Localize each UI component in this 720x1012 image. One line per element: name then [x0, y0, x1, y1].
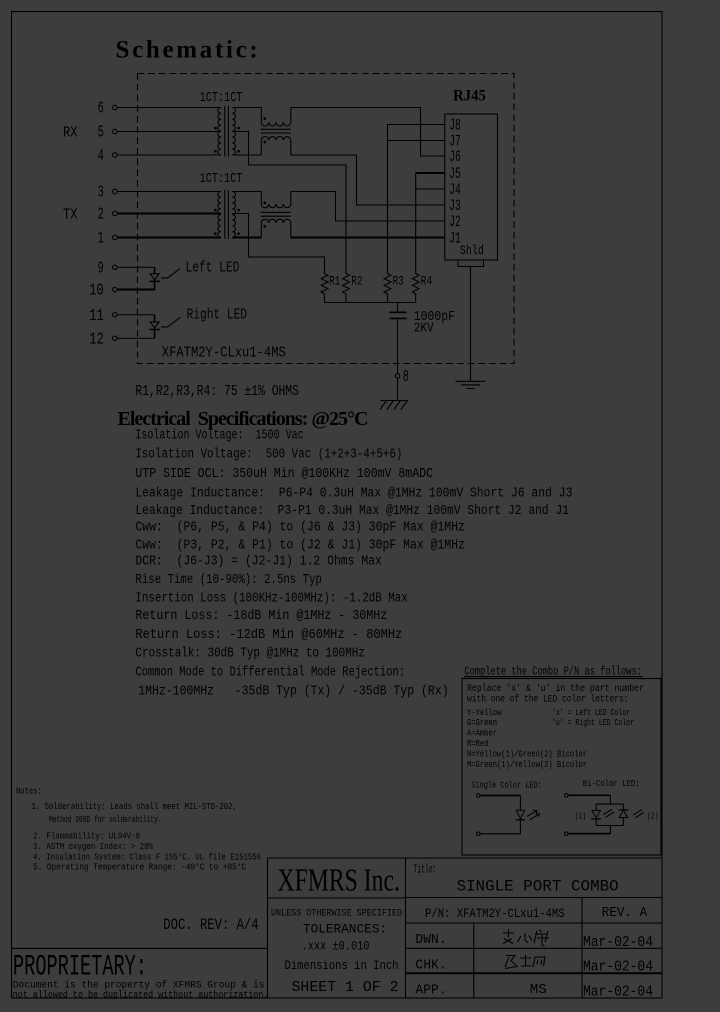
svg-text:R1,R2,R3,R4: 75 ±1% OHMS: R1,R2,R3,R4: 75 ±1% OHMS — [135, 384, 299, 400]
drawn signature — [503, 930, 549, 947]
choke L2 phase dots — [264, 202, 266, 228]
svg-text:Replace 'x' & 'u' in the part: Replace 'x' & 'u' in the part number — [467, 683, 644, 695]
svg-text:XFMRS Inc.: XFMRS Inc. — [278, 864, 400, 899]
svg-text:APP.: APP. — [415, 983, 446, 998]
wire T1 secondary top to choke L1 — [232, 107, 261, 109]
transformer T1 secondary winding — [232, 108, 235, 156]
svg-text:.xxx ±0.010: .xxx ±0.010 — [302, 938, 370, 953]
svg-text:Leakage Inductance: P3-P1 0.3: Leakage Inductance: P3-P1 0.3uH Max @1MH… — [135, 504, 569, 519]
svg-text:Isolation Voltage: 1500 Vac: Isolation Voltage: 1500 Vac — [135, 429, 303, 444]
svg-text:SINGLE PORT COMBO: SINGLE PORT COMBO — [456, 878, 618, 896]
LED left (pins 9-10) — [149, 267, 160, 289]
svg-text:Method 208D for solderability.: Method 208D for solderability. — [49, 814, 162, 825]
svg-text:Common Mode to Differential Mo: Common Mode to Differential Mode Rejecti… — [135, 666, 405, 681]
bi-color LED diagram — [565, 794, 644, 836]
svg-text:Bi-Color LED:: Bi-Color LED: — [583, 779, 640, 789]
svg-text:5. Operating Temperature Range: 5. Operating Temperature Range: -40°C to… — [33, 861, 246, 872]
wire choke L2 top to J2 — [291, 192, 445, 222]
wire R2 bottom to bus — [345, 294, 347, 303]
svg-text:Mar-02-04: Mar-02-04 — [583, 935, 653, 951]
transformer T1 phase dots — [214, 127, 240, 152]
wire J5/J4 to R4 — [415, 173, 417, 274]
svg-text:Title:: Title: — [414, 862, 437, 876]
svg-text:9: 9 — [98, 260, 104, 279]
LED right (pins 11-12) — [149, 315, 160, 339]
wire RJ45 shield to earth ground — [470, 267, 472, 382]
svg-text:P/N: XFATM2Y-CLxu1-4MS: P/N: XFATM2Y-CLxu1-4MS — [425, 906, 565, 921]
svg-text:TOLERANCES:: TOLERANCES: — [303, 921, 387, 936]
svg-text:RJ45: RJ45 — [453, 87, 486, 104]
svg-text:1CT:1CT: 1CT:1CT — [200, 172, 243, 187]
svg-text:Document is the property of XF: Document is the property of XFMRS Group … — [13, 979, 265, 991]
svg-text:Mar-02-04: Mar-02-04 — [583, 960, 653, 976]
wire R4 bottom to bus — [415, 294, 417, 303]
svg-text:Y-Yellow: Y-Yellow — [467, 708, 502, 718]
svg-text:M=Green(1)/Yellow(2) Bicolor: M=Green(1)/Yellow(2) Bicolor — [467, 760, 587, 770]
wire J8 stub to R3 — [388, 125, 445, 274]
svg-text:R3: R3 — [393, 274, 404, 288]
pin 9 terminal — [113, 265, 155, 269]
choke L1 top winding — [261, 108, 291, 127]
wire T2 secondary bottom to choke L2 (bold) — [232, 237, 261, 239]
svg-text:Electrical Specifications: @2: Electrical Specifications: @25°C — [118, 408, 369, 430]
choke L1 bottom winding — [261, 136, 291, 155]
svg-text:not allowed to be duplicated w: not allowed to be duplicated without aut… — [13, 990, 269, 1002]
svg-text:Notes:: Notes: — [16, 786, 42, 797]
svg-text:J2: J2 — [449, 213, 461, 231]
wire T2 secondary center tap to R1 — [232, 214, 324, 274]
svg-text:R4: R4 — [421, 274, 432, 288]
svg-text:Return Loss: -18dB Min @1MHz -: Return Loss: -18dB Min @1MHz - 30MHz — [135, 609, 387, 624]
svg-text:Leakage Inductance: P6-P4 0.3: Leakage Inductance: P6-P4 0.3uH Max @1MH… — [135, 486, 572, 501]
pin 6 terminal — [113, 105, 222, 110]
title block frame — [268, 858, 663, 998]
resistor R3 — [384, 274, 391, 294]
svg-text:UNLESS OTHERWISE SPECIFIED: UNLESS OTHERWISE SPECIFIED — [271, 907, 402, 919]
wire R3 bottom to bus — [387, 294, 389, 303]
svg-text:MS: MS — [530, 983, 547, 998]
svg-text:TX: TX — [63, 206, 78, 223]
wire J5 stub (bold) — [416, 172, 445, 174]
choke L2 bottom winding — [261, 219, 291, 237]
svg-text:DWN.: DWN. — [415, 933, 446, 948]
pin 1 terminal — [113, 235, 222, 240]
svg-text:Schematic:: Schematic: — [116, 37, 258, 64]
pin 4 terminal — [113, 153, 222, 158]
transformer T2 phase dots — [214, 209, 240, 235]
svg-text:J6: J6 — [449, 148, 461, 166]
wire J4 stub — [416, 188, 445, 190]
svg-text:2: 2 — [98, 206, 104, 225]
choke L1 core — [261, 129, 291, 133]
svg-text:Single Color LED:: Single Color LED: — [471, 780, 542, 790]
RJ45 shield notch — [458, 260, 484, 267]
choke L2 core — [261, 212, 291, 216]
transformer T1 core — [225, 106, 229, 157]
svg-text:(1): (1) — [575, 811, 587, 821]
pin 12 terminal — [113, 336, 155, 340]
dashed module boundary — [138, 74, 515, 364]
svg-text:Shld: Shld — [460, 243, 484, 258]
Right LED leader line — [161, 317, 180, 327]
svg-text:Insertion Loss (100KHz-100MHz): Insertion Loss (100KHz-100MHz): -1.2dB M… — [135, 592, 407, 607]
svg-text:UTP SIDE OCL: 350uH Min @100KH: UTP SIDE OCL: 350uH Min @100KHz 100mV 8m… — [135, 467, 433, 482]
choke L1 phase dots — [264, 117, 266, 143]
svg-text:Return Loss: -12dB Min @60MHz: Return Loss: -12dB Min @60MHz - 80MHz — [135, 628, 402, 643]
svg-text:SHEET 1 OF 2: SHEET 1 OF 2 — [292, 980, 399, 996]
resistor R1 — [321, 274, 328, 294]
resistor bottom bus — [325, 302, 416, 304]
pin 8 terminal — [395, 374, 400, 379]
earth ground symbol (shield) — [456, 381, 486, 388]
svg-text:DCR: (J6-J3) = (J2-J1) 1.2 Oh: DCR: (J6-J3) = (J2-J1) 1.2 Ohms Max — [135, 555, 382, 570]
svg-text:8: 8 — [403, 368, 409, 387]
wire choke L2 bottom to J1 (bold) — [291, 237, 445, 239]
svg-text:Rise Time (10-90%): 2.5ns Typ: Rise Time (10-90%): 2.5ns Typ — [135, 573, 322, 588]
svg-text:RX: RX — [63, 124, 78, 141]
svg-text:N=Yellow(1)/Green(2) Bicolor: N=Yellow(1)/Green(2) Bicolor — [467, 749, 587, 759]
pin 10 terminal — [113, 287, 155, 291]
svg-text:6: 6 — [98, 100, 104, 119]
svg-text:R=Red: R=Red — [467, 739, 489, 749]
svg-text:Right LED: Right LED — [187, 308, 247, 324]
wire T1 secondary bottom to choke L1 — [232, 154, 261, 156]
wire J7 stub — [388, 140, 445, 142]
wire pin 8 to chassis ground — [397, 378, 399, 400]
wire T1 secondary center tap to R2 — [232, 132, 346, 274]
svg-text:CHK.: CHK. — [415, 958, 446, 973]
resistor R4 — [412, 274, 419, 294]
choke L2 top winding — [261, 192, 291, 208]
svg-text:with one of the LED color lett: with one of the LED color letters: — [467, 694, 629, 706]
svg-text:A=Amber: A=Amber — [467, 728, 497, 738]
svg-text:(2): (2) — [647, 811, 659, 821]
svg-text:'u' = Right LED Color: 'u' = Right LED Color — [552, 718, 634, 728]
svg-text:3. ASTM oxygen Index: > 28%: 3. ASTM oxygen Index: > 28% — [33, 841, 153, 852]
svg-text:1. Solderability: Leads shall: 1. Solderability: Leads shall meet MIL-S… — [32, 801, 237, 812]
chassis ground symbol — [380, 401, 408, 410]
resistor R2 — [343, 274, 350, 294]
wire capacitor to pin 8 — [397, 319, 399, 373]
transformer T1 primary winding — [218, 108, 221, 156]
svg-text:Cww: (P3, P2, & P1) to (J2 &: Cww: (P3, P2, & P1) to (J2 & J1) 30pF Ma… — [135, 538, 465, 553]
svg-text:Crosstalk: 30dB Typ @1MHz to 1: Crosstalk: 30dB Typ @1MHz to 100MHz — [135, 647, 365, 662]
wire R1 bottom to bus — [324, 294, 326, 303]
svg-text:Cww: (P6, P5, & P4) to (J6 &: Cww: (P6, P5, & P4) to (J6 & J3) 30pF Ma… — [135, 520, 465, 535]
single color LED diagram — [477, 794, 540, 836]
svg-text:10: 10 — [89, 282, 104, 301]
wire T2 secondary top to choke L2 — [232, 191, 261, 193]
pin 5 terminal — [113, 129, 222, 134]
svg-text:11: 11 — [89, 307, 104, 326]
pin 11 terminal — [113, 313, 155, 317]
proprietary box top line — [12, 947, 268, 949]
svg-text:REV. A: REV. A — [602, 905, 648, 921]
svg-text:R2: R2 — [351, 274, 362, 288]
combo p/n box — [462, 679, 661, 856]
svg-text:4: 4 — [98, 147, 104, 166]
RJ45 connector body — [445, 114, 498, 260]
svg-text:G=Green: G=Green — [467, 718, 497, 728]
svg-text:Dimensions in Inch: Dimensions in Inch — [285, 959, 399, 973]
transformer T2 secondary winding — [232, 192, 235, 238]
svg-text:3: 3 — [98, 184, 104, 203]
svg-text:1: 1 — [98, 230, 104, 249]
combo p/n heading underline — [464, 676, 643, 678]
Left LED leader line — [161, 268, 180, 278]
transformer T2 primary winding — [218, 192, 221, 238]
svg-text:2. Flammability: UL94V-0: 2. Flammability: UL94V-0 — [33, 830, 140, 841]
transformer T2 core — [225, 190, 229, 239]
svg-text:12: 12 — [89, 330, 104, 349]
wire choke L1 top to J6 — [291, 108, 445, 157]
svg-text:5: 5 — [98, 124, 104, 143]
svg-text:'x' = Left LED Color: 'x' = Left LED Color — [552, 708, 630, 718]
svg-text:Left LED: Left LED — [186, 260, 240, 276]
svg-text:1CT:1CT: 1CT:1CT — [200, 91, 243, 106]
wire choke L1 bottom to J3 — [291, 155, 445, 205]
svg-text:Isolation Voltage: 500 Vac (1: Isolation Voltage: 500 Vac (1+2+3-4+5+6) — [135, 448, 402, 463]
svg-text:XFATM2Y-CLxu1-4MS: XFATM2Y-CLxu1-4MS — [162, 344, 286, 361]
svg-text:R1: R1 — [329, 274, 340, 288]
svg-text:DOC. REV: A/4: DOC. REV: A/4 — [163, 916, 258, 934]
wire bus to capacitor C1 — [397, 303, 399, 312]
svg-text:1MHz-100MHz -35dB Typ (Tx) /: 1MHz-100MHz -35dB Typ (Tx) / -35dB Typ (… — [138, 685, 448, 700]
svg-text:2KV: 2KV — [414, 321, 434, 337]
checked signature — [505, 955, 545, 969]
svg-text:Mar-02-04: Mar-02-04 — [583, 984, 653, 1000]
pin 2 terminal — [113, 211, 222, 216]
pin 3 terminal — [113, 189, 222, 194]
capacitor C1 1000pF 2KV — [390, 312, 407, 318]
